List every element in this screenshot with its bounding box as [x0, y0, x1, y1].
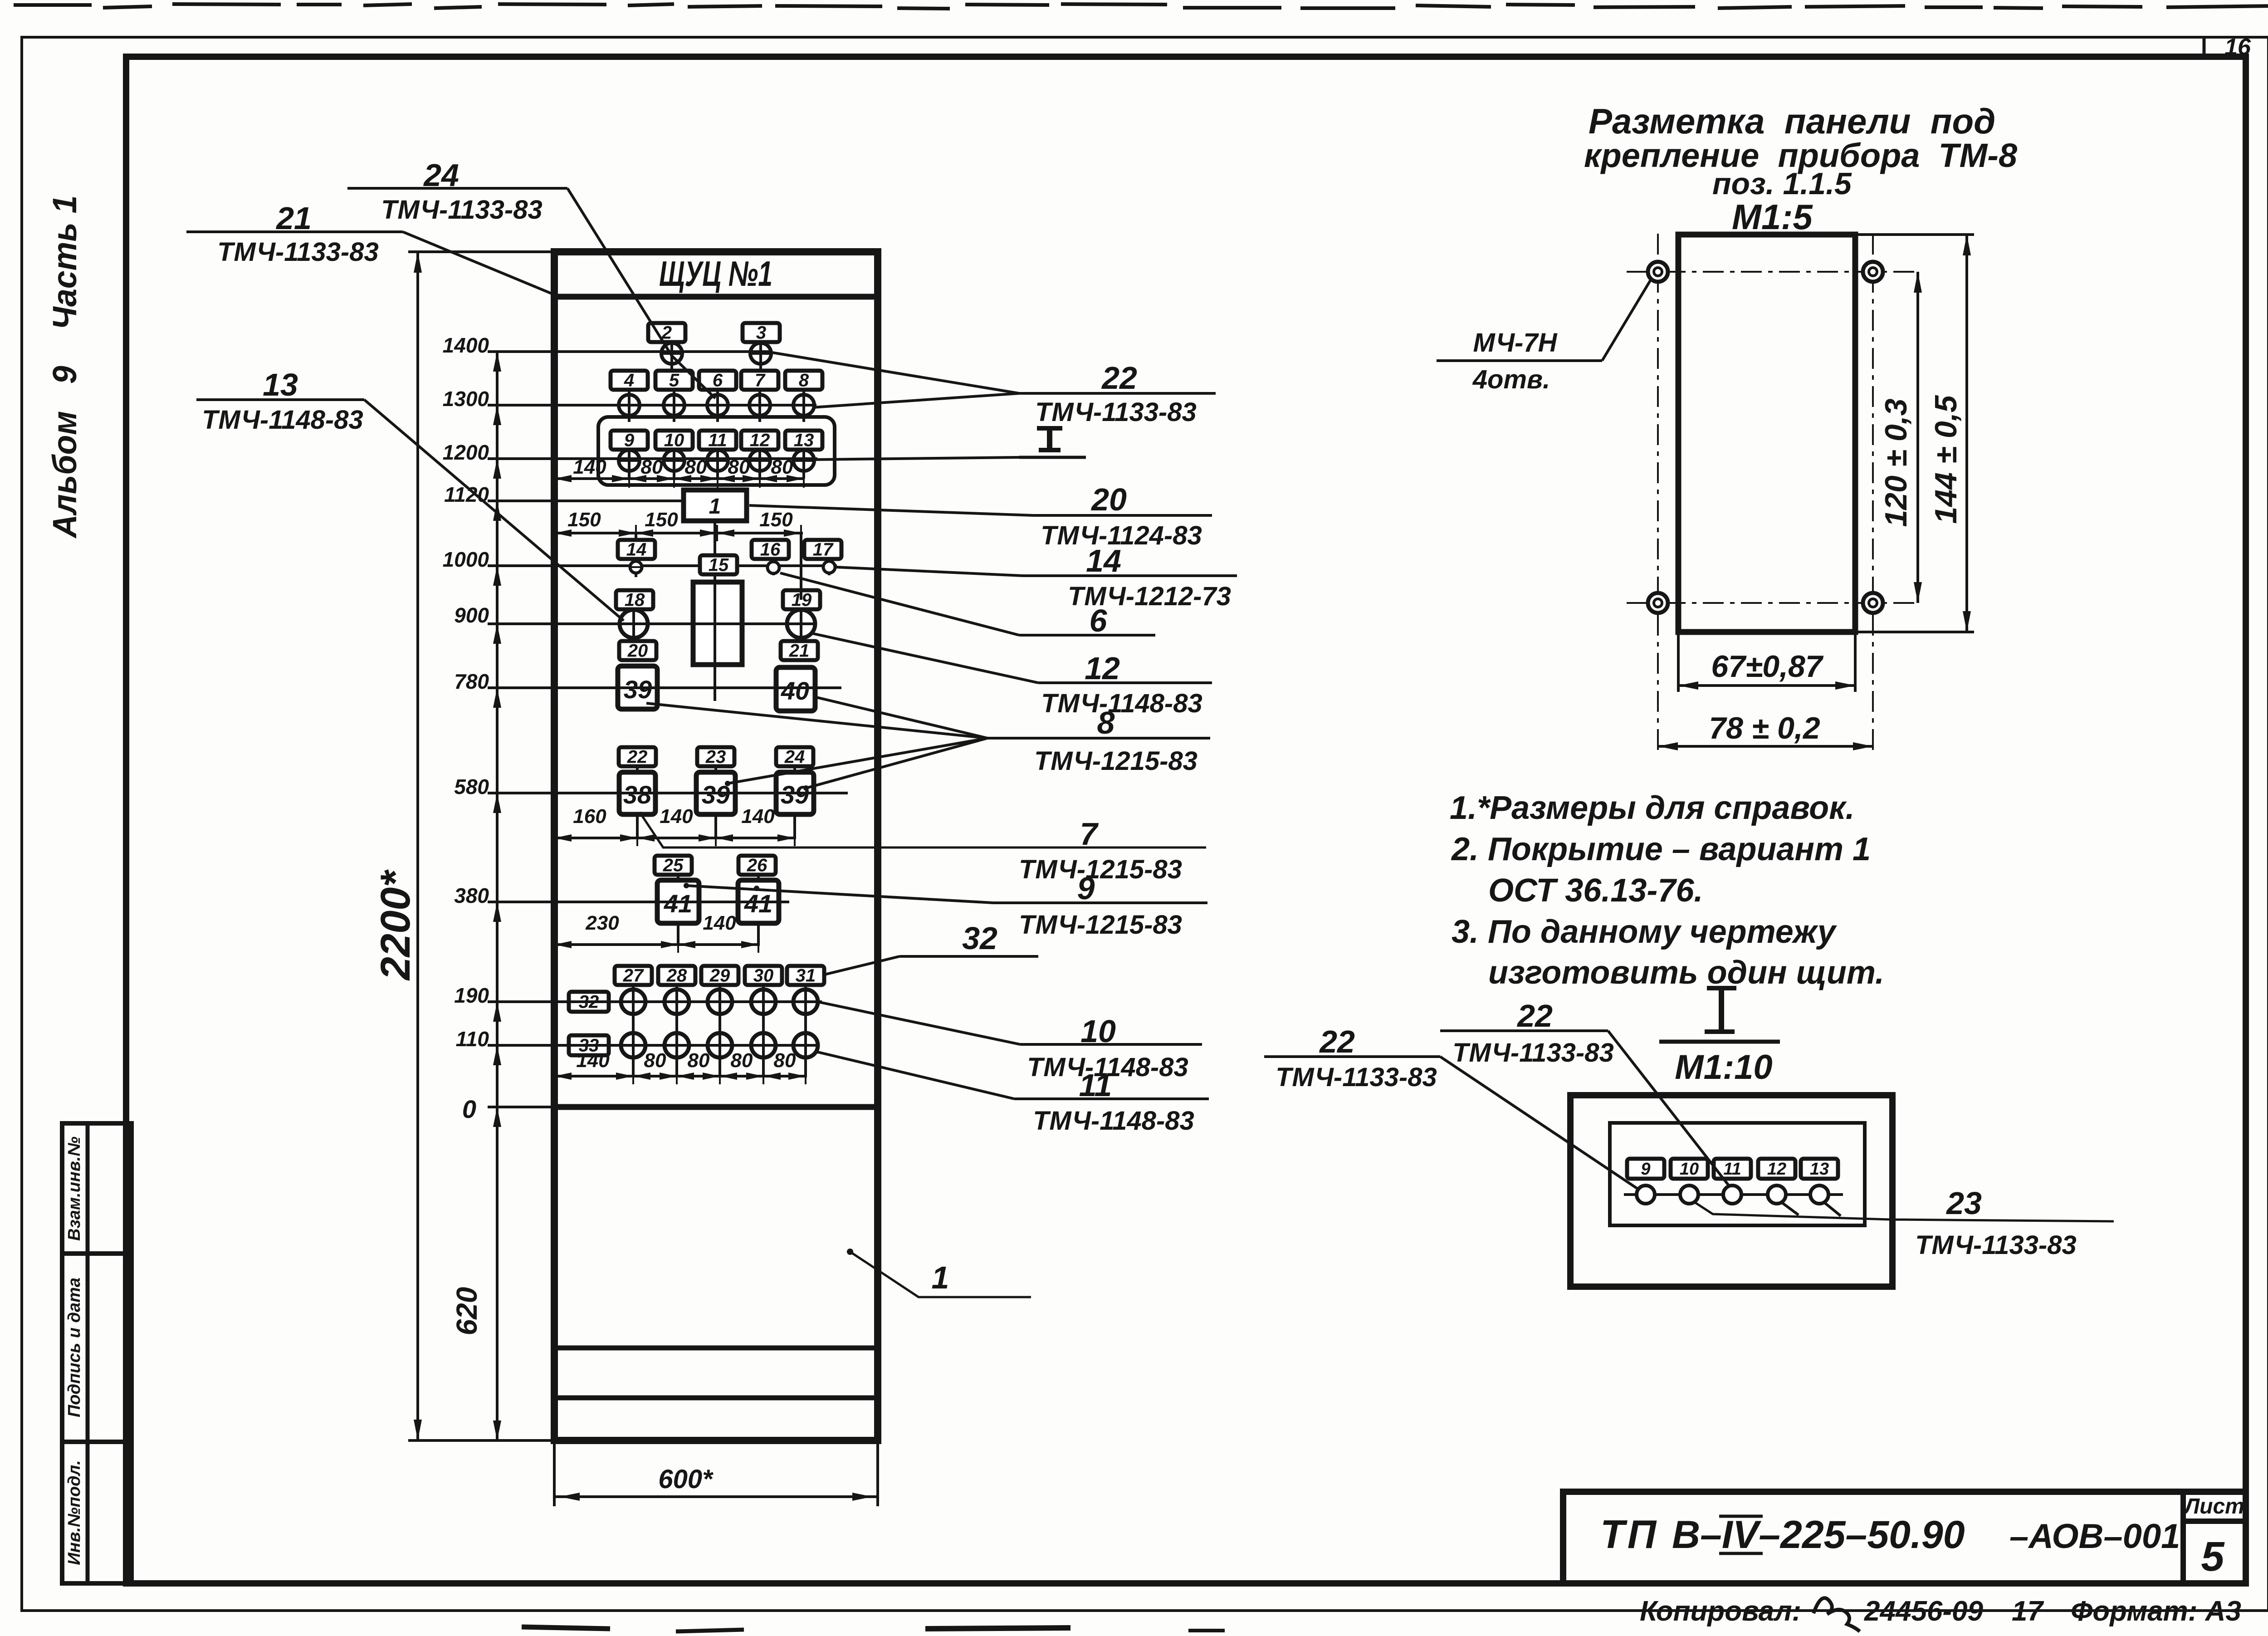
svg-text:160: 160	[573, 805, 606, 828]
svg-text:ТМЧ-1133-83: ТМЧ-1133-83	[1276, 1063, 1437, 1092]
svg-text:В–IV–225–50.90: В–IV–225–50.90	[1672, 1513, 1965, 1557]
svg-text:16: 16	[760, 540, 781, 560]
switch 41 left	[657, 880, 699, 923]
lamp 3	[759, 342, 762, 370]
svg-text:14: 14	[1086, 543, 1121, 578]
svg-text:4отв.: 4отв.	[1472, 365, 1550, 394]
svg-text:2200*: 2200*	[372, 869, 419, 981]
svg-text:1000: 1000	[443, 548, 489, 571]
svg-text:ТМЧ-1148-83: ТМЧ-1148-83	[1033, 1106, 1194, 1136]
svg-text:Формат: А3: Формат: А3	[2071, 1596, 2241, 1627]
overall 2200 dimension line	[416, 252, 419, 1440]
buttons row 190	[621, 989, 645, 1014]
svg-text:150: 150	[645, 509, 678, 531]
svg-text:80: 80	[774, 1049, 796, 1072]
label 33	[569, 1035, 609, 1055]
panel lower band lines	[554, 1346, 878, 1351]
svg-text:80: 80	[644, 1049, 666, 1072]
panel header line	[554, 294, 878, 300]
labels 22 23 24	[636, 767, 639, 838]
svg-text:10: 10	[1680, 1160, 1699, 1179]
svg-text:190: 190	[454, 984, 489, 1007]
labels 25 26	[677, 874, 679, 945]
svg-text:22: 22	[1516, 998, 1553, 1034]
dimension 150-150-150	[554, 532, 803, 534]
svg-text:38: 38	[623, 780, 652, 809]
svg-text:ТМЧ-1133-83: ТМЧ-1133-83	[1035, 397, 1197, 427]
svg-text:ЩУЦ №1: ЩУЦ №1	[659, 254, 772, 294]
column line for button 19	[800, 533, 802, 600]
svg-text:ТМЧ-1124-83: ТМЧ-1124-83	[1041, 521, 1202, 550]
svg-text:110: 110	[456, 1027, 489, 1051]
svg-text:120 ± 0,3: 120 ± 0,3	[1879, 398, 1913, 527]
svg-text:23: 23	[1945, 1185, 1982, 1221]
svg-text:6: 6	[1090, 603, 1108, 638]
svg-text:39: 39	[781, 780, 809, 809]
svg-text:140: 140	[741, 805, 775, 828]
svg-text:13: 13	[794, 431, 814, 451]
svg-text:ТМЧ-1215-83: ТМЧ-1215-83	[1019, 855, 1182, 884]
svg-text:Разметка панели под: Разметка панели под	[1589, 101, 1995, 141]
svg-text:22: 22	[627, 747, 648, 767]
svg-text:8: 8	[1097, 705, 1115, 740]
svg-text:Взам.инв.№: Взам.инв.№	[65, 1136, 84, 1241]
level chain dimension line	[496, 352, 499, 1440]
dimension 67+-0.87	[1677, 632, 1680, 692]
svg-text:150: 150	[759, 509, 793, 531]
svg-text:1.*Размеры для справок.: 1.*Размеры для справок.	[1450, 790, 1855, 826]
svg-text:39: 39	[624, 675, 652, 704]
svg-text:28: 28	[666, 966, 687, 986]
svg-text:22: 22	[1101, 360, 1137, 396]
svg-text:ТП: ТП	[1600, 1512, 1659, 1557]
signal lamp 16	[772, 560, 775, 575]
centerline through device 15	[714, 582, 716, 665]
svg-text:13: 13	[1810, 1160, 1829, 1179]
svg-text:31: 31	[796, 966, 816, 986]
svg-text:150: 150	[567, 509, 601, 531]
svg-text:780: 780	[454, 670, 489, 693]
switch 39 right	[776, 772, 814, 814]
svg-text:41: 41	[744, 889, 772, 918]
svg-text:Альбом 9 Часть 1: Альбом 9 Часть 1	[46, 196, 83, 539]
svg-text:10: 10	[664, 431, 684, 451]
svg-text:600*: 600*	[658, 1465, 714, 1494]
svg-text:140: 140	[660, 805, 693, 828]
device 40 (pos21)	[776, 667, 815, 711]
svg-text:7: 7	[1080, 816, 1099, 852]
svg-text:25: 25	[663, 856, 684, 876]
svg-text:12: 12	[750, 431, 770, 451]
svg-text:ТМЧ-1148-83: ТМЧ-1148-83	[202, 405, 363, 435]
svg-text:41: 41	[664, 889, 692, 918]
svg-text:26: 26	[747, 856, 767, 876]
svg-text:Лист: Лист	[2183, 1494, 2244, 1518]
button 18	[632, 609, 635, 643]
svg-text:15: 15	[709, 555, 729, 575]
svg-text:22: 22	[1319, 1024, 1355, 1059]
svg-text:27: 27	[623, 966, 644, 986]
panel ЩУЦ N1 outline	[554, 252, 878, 1440]
svg-text:–АОВ–001: –АОВ–001	[2009, 1517, 2180, 1556]
dimension 144+-0.5	[1855, 233, 1974, 236]
svg-text:9: 9	[624, 431, 635, 451]
svg-text:ТМЧ-1133-83: ТМЧ-1133-83	[381, 195, 543, 225]
svg-text:5: 5	[2201, 1533, 2225, 1580]
svg-text:20: 20	[1090, 482, 1127, 517]
centerlines dash-dot	[1627, 271, 1918, 273]
device 21 label	[781, 641, 818, 660]
svg-text:16: 16	[2224, 34, 2251, 60]
device 39 (pos20)	[618, 666, 657, 709]
svg-text:5: 5	[669, 371, 679, 391]
detail view outer body	[1570, 1095, 1892, 1287]
svg-text:ТМЧ-1148-83: ТМЧ-1148-83	[1041, 689, 1202, 718]
device 15 label	[700, 555, 737, 574]
svg-text:17: 17	[2012, 1596, 2044, 1627]
svg-text:20: 20	[627, 641, 648, 661]
signal lamp 17	[828, 560, 831, 575]
torn paper top edge	[14, 4, 2268, 9]
svg-text:ОСТ 36.13-76.: ОСТ 36.13-76.	[1488, 872, 1703, 909]
switch 41 right	[738, 880, 779, 923]
section I mark above detail	[1707, 986, 1736, 990]
signal lamp 14	[635, 533, 637, 577]
page number 16 box	[2203, 37, 2206, 57]
dimension 600 bottom	[553, 1443, 556, 1506]
title block	[1563, 1492, 2246, 1583]
mounting holes MCh-7N	[1648, 262, 1668, 282]
svg-text:620: 620	[450, 1287, 483, 1336]
svg-text:Копировал:: Копировал:	[1640, 1596, 1801, 1627]
svg-text:1400: 1400	[443, 333, 489, 357]
dimension 160-140-140	[554, 837, 796, 839]
switch 38	[619, 772, 655, 814]
label 32	[569, 992, 609, 1012]
callout 1 panel body	[847, 1249, 853, 1255]
lamps 4-8	[628, 391, 631, 422]
svg-text:6: 6	[713, 371, 723, 391]
svg-text:4: 4	[624, 371, 634, 391]
dimension 230-140	[554, 943, 760, 946]
instrument box 1	[684, 490, 747, 521]
svg-text:ТМЧ-1215-83: ТМЧ-1215-83	[1019, 910, 1182, 940]
svg-text:12: 12	[1085, 651, 1120, 686]
svg-text:9: 9	[1077, 871, 1095, 906]
svg-text:80: 80	[731, 1049, 753, 1072]
group box I for lamps 9-13	[598, 417, 835, 485]
svg-text:380: 380	[454, 884, 489, 907]
svg-text:23: 23	[705, 747, 726, 767]
svg-text:32: 32	[962, 921, 997, 956]
svg-text:1300: 1300	[443, 387, 489, 411]
svg-text:поз. 1.1.5: поз. 1.1.5	[1712, 167, 1852, 201]
svg-text:18: 18	[625, 590, 645, 610]
dimension 140-80-80-80-80 row C	[554, 477, 804, 480]
lamps 9-13	[628, 451, 631, 479]
svg-text:1: 1	[932, 1260, 949, 1295]
svg-text:3. По данному чертежу: 3. По данному чертежу	[1452, 914, 1838, 950]
svg-text:изготовить один щит.: изготовить один щит.	[1488, 955, 1884, 991]
svg-text:ТМЧ-1215-83: ТМЧ-1215-83	[1034, 746, 1198, 776]
svg-text:21: 21	[789, 641, 810, 661]
svg-text:11: 11	[708, 431, 727, 451]
svg-text:1: 1	[709, 495, 721, 519]
svg-text:ТМЧ-1133-83: ТМЧ-1133-83	[1452, 1038, 1614, 1068]
dimension 78+-0.2	[1658, 745, 1873, 748]
lamp 2	[670, 342, 673, 370]
svg-text:Подпись и дата: Подпись и дата	[65, 1278, 84, 1417]
svg-text:2. Покрытие – вариант 1: 2. Покрытие – вариант 1	[1451, 831, 1871, 867]
bottom scan smudges	[522, 1627, 610, 1629]
detail lamp line	[1624, 1193, 1843, 1196]
svg-text:78 ± 0,2: 78 ± 0,2	[1709, 711, 1820, 745]
buttons row 110	[621, 1033, 645, 1058]
svg-text:1200: 1200	[443, 441, 489, 464]
detail connection polyline to 23	[1693, 1201, 2114, 1221]
svg-text:24456-09: 24456-09	[1864, 1596, 1984, 1627]
svg-text:140: 140	[576, 1049, 610, 1072]
dimension 120+-0.3	[1916, 272, 1919, 603]
svg-text:8: 8	[799, 371, 809, 391]
svg-text:ТМЧ-1133-83: ТМЧ-1133-83	[217, 237, 379, 267]
svg-text:13: 13	[263, 367, 298, 402]
svg-text:Инв.№подл.: Инв.№подл.	[65, 1460, 84, 1565]
svg-text:ТМЧ-1133-83: ТМЧ-1133-83	[1915, 1230, 2077, 1260]
svg-text:24: 24	[784, 747, 805, 767]
device 20 label	[619, 641, 656, 660]
section mark I	[1037, 426, 1062, 431]
svg-text:МЧ-7Н: МЧ-7Н	[1473, 328, 1558, 358]
svg-text:144 ± 0,5: 144 ± 0,5	[1929, 395, 1963, 524]
svg-text:900: 900	[454, 603, 489, 627]
detail labels 9-13	[1627, 1159, 1664, 1179]
svg-text:29: 29	[709, 966, 730, 986]
level lines	[488, 500, 684, 502]
svg-text:3: 3	[756, 323, 766, 343]
svg-text:9: 9	[1641, 1160, 1650, 1179]
labels 27-31	[632, 986, 635, 1076]
svg-text:140: 140	[703, 912, 736, 934]
detail lamps	[1637, 1185, 1655, 1204]
svg-text:580: 580	[454, 775, 489, 798]
left stamp strip	[62, 1123, 132, 1254]
dimension 140-80x4 bottom	[554, 1075, 807, 1078]
svg-text:М1:5: М1:5	[1732, 197, 1813, 237]
svg-text:17: 17	[813, 540, 834, 560]
svg-text:11: 11	[1723, 1160, 1741, 1179]
column centerline under box 1	[714, 521, 716, 582]
device 15 body	[693, 582, 742, 665]
svg-text:12: 12	[1767, 1160, 1786, 1179]
level lines overlay	[488, 350, 771, 353]
svg-text:40: 40	[781, 676, 809, 705]
button 19	[800, 609, 802, 643]
panel zero level thick line	[554, 1104, 878, 1110]
detail inner panel	[1610, 1123, 1865, 1225]
svg-text:230: 230	[585, 912, 619, 934]
svg-text:7: 7	[755, 371, 766, 391]
svg-text:80: 80	[688, 1049, 710, 1072]
svg-text:0: 0	[462, 1095, 476, 1123]
svg-text:14: 14	[626, 540, 647, 560]
panel cutout rectangle	[1678, 235, 1855, 632]
svg-text:67±0,87: 67±0,87	[1711, 649, 1823, 684]
svg-text:М1:10: М1:10	[1675, 1048, 1772, 1087]
switch 39 mid	[696, 772, 735, 814]
svg-text:30: 30	[753, 966, 774, 986]
